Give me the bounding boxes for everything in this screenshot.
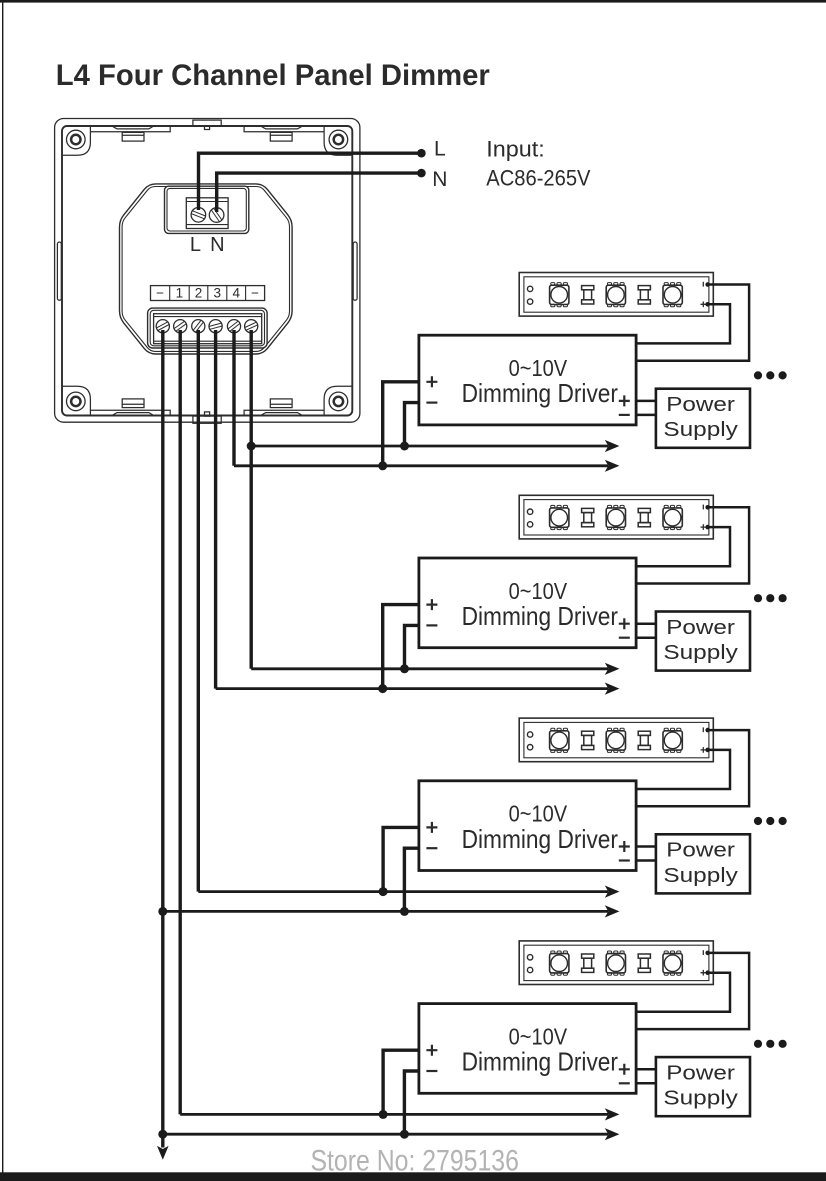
node LS1 bottom (705, 302, 710, 307)
svg-text:Input:: Input: (486, 137, 545, 162)
output terminal screw 6 (245, 320, 258, 333)
label - output U4 (619, 1082, 630, 1084)
bus line B channel 2 (216, 687, 608, 690)
junction U4+ on A (379, 1110, 388, 1119)
svg-text:Power: Power (666, 394, 735, 416)
resistor LS3.R2 (638, 731, 650, 749)
pad + LS1 (701, 302, 707, 308)
resistor LS1.R1 (582, 286, 594, 304)
junction bus A ch1 on common right wire (247, 442, 256, 451)
power supply PS4 (656, 1057, 750, 1116)
wire U4 + to PS4 (636, 1068, 656, 1071)
ellipsis channel 3 (754, 817, 787, 825)
output terminal screw 5 (227, 320, 240, 333)
LED chip LS3.3 (663, 728, 682, 752)
svg-text:0~10V: 0~10V (509, 355, 568, 381)
label - output U3 (619, 859, 630, 861)
wire U3 - input (404, 848, 419, 911)
wire U1 + to PS1 (636, 400, 656, 403)
wire LS1 bottom to driver U1 (636, 304, 730, 343)
wire LS1 top to driver U1 (636, 285, 749, 361)
ellipsis channel 2 (754, 594, 787, 602)
wire U4 + input (383, 1050, 419, 1114)
svg-text:L4 Four Channel Panel Dimmer: L4 Four Channel Panel Dimmer (56, 59, 491, 92)
dimming driver U1 (419, 335, 636, 425)
wire output channel 3 (214, 330, 217, 689)
svg-text:Dimming Driver: Dimming Driver (462, 1047, 619, 1077)
wire output channel 4 (232, 330, 235, 466)
bus line A channel 1 (251, 445, 608, 448)
label - input U2 (426, 624, 437, 626)
svg-text:Supply: Supply (663, 642, 738, 664)
device corner screws (67, 130, 348, 411)
node LS2 bottom (705, 525, 710, 530)
svg-text:N: N (210, 234, 224, 256)
label + input U4 (426, 1045, 437, 1056)
node LS3 top (705, 728, 710, 733)
wire output common - (left) (161, 330, 164, 1148)
node LS3 bottom (705, 748, 710, 753)
LED chip LS4.2 (606, 951, 625, 975)
node L (417, 149, 426, 158)
device octagon mounting ring (120, 184, 293, 354)
wire U1 - input (405, 403, 419, 446)
wire LS2 bottom to driver U2 (636, 527, 730, 566)
svg-text:2: 2 (195, 286, 203, 301)
junction U3- on B (400, 907, 409, 916)
LED chip LS3.2 (606, 728, 625, 752)
svg-text:Supply: Supply (663, 419, 738, 441)
svg-text:1: 1 (176, 286, 184, 301)
power supply PS3 (656, 834, 750, 893)
dimming driver U2 (419, 558, 636, 648)
junction U3+ on A (379, 887, 388, 896)
ellipsis channel 1 (754, 371, 787, 379)
svg-text:−: − (156, 286, 164, 301)
label + output U1 (619, 395, 630, 406)
wire L input (199, 153, 422, 210)
label - input U1 (426, 402, 437, 404)
junction bus B ch3 on common left wire (158, 907, 167, 916)
output terminal screw 3 (192, 320, 205, 333)
label - input U3 (426, 847, 437, 849)
page bottom border (0, 1172, 826, 1181)
wire output common - (right) (249, 330, 252, 669)
wire LS4 top to driver U4 (636, 953, 749, 1029)
svg-text:0~10V: 0~10V (509, 801, 568, 827)
bus line A channel 3 (198, 890, 608, 893)
LED chip LS1.3 (663, 283, 682, 307)
svg-text:0~10V: 0~10V (509, 578, 568, 604)
LED chip LS1.2 (606, 283, 625, 307)
LED strip LS2 (519, 495, 713, 539)
resistor LS3.R1 (582, 731, 594, 749)
wire LS3 bottom to driver U3 (636, 750, 730, 789)
dimming driver U4 (419, 1004, 636, 1094)
bus line B channel 1 (234, 464, 608, 467)
resistor LS2.R2 (638, 508, 650, 526)
output terminal screw 4 (209, 320, 222, 333)
resistor LS4.R1 (582, 954, 594, 972)
resistor LS4.R2 (638, 954, 650, 972)
terminal screw L (191, 208, 206, 223)
pad + LS4 (701, 970, 707, 976)
LED strip LS3 (519, 718, 713, 762)
wire U1 + input (383, 382, 419, 466)
wire N input (217, 173, 422, 212)
resistor LS1.R2 (638, 286, 650, 304)
ellipsis channel 4 (754, 1040, 787, 1048)
terminal screw N (209, 208, 224, 223)
output terminal screw 1 (156, 320, 169, 333)
power supply PS2 (656, 612, 750, 671)
resistor LS2.R1 (582, 508, 594, 526)
pad - LS2 (702, 505, 704, 510)
wire U2 + input (383, 605, 419, 689)
wire U2 - input (405, 625, 419, 668)
arrow bus A channel 1 (605, 440, 620, 452)
bus line B channel 3 (163, 910, 608, 913)
svg-text:Dimming Driver: Dimming Driver (462, 378, 619, 408)
junction U2- on A (400, 664, 409, 673)
svg-text:−: − (251, 286, 259, 301)
svg-text:Dimming Driver: Dimming Driver (462, 824, 619, 854)
pad - LS1 (702, 282, 704, 287)
LED chip LS2.2 (606, 505, 625, 529)
wire LS2 top to driver U2 (636, 507, 749, 583)
LED chip LS4.3 (663, 951, 682, 975)
svg-text:L: L (190, 234, 201, 256)
label + input U1 (426, 376, 437, 387)
svg-text:N: N (432, 168, 447, 191)
pad - LS4 (702, 950, 704, 955)
dimming driver U3 (419, 781, 636, 871)
label + output U2 (619, 618, 630, 629)
label - output U1 (619, 414, 630, 416)
wire LS3 top to driver U3 (636, 730, 749, 806)
node LS2 top (705, 505, 710, 510)
arrow bus B channel 1 (605, 460, 620, 472)
output terminal block (148, 308, 268, 348)
label - output U2 (619, 637, 630, 639)
svg-text:L: L (434, 137, 446, 160)
pad + LS3 (701, 747, 707, 753)
wire U3 + to PS3 (636, 845, 656, 848)
wire U4 - input (404, 1071, 419, 1134)
node LS1 top (705, 282, 710, 287)
LED chip LS2.3 (663, 505, 682, 529)
wire U3 + input (383, 827, 419, 891)
LED strip LS1 (519, 273, 713, 317)
pad + LS2 (701, 524, 707, 530)
wire U3 - to PS3 (636, 859, 656, 862)
bus line B channel 4 (163, 1133, 608, 1136)
pad - LS3 (702, 727, 704, 732)
node LS4 bottom (705, 970, 710, 975)
svg-text:Power: Power (666, 617, 735, 639)
svg-text:4: 4 (232, 286, 240, 301)
wire U1 - to PS1 (636, 414, 656, 417)
wire output channel 1 (178, 330, 181, 1114)
label + output U3 (619, 841, 630, 852)
svg-text:0~10V: 0~10V (509, 1023, 568, 1049)
arrow bus A channel 4 (605, 1108, 620, 1120)
wire LS4 bottom to driver U4 (636, 973, 730, 1012)
svg-text:Dimming Driver: Dimming Driver (462, 601, 619, 631)
arrow bus A channel 2 (605, 663, 620, 675)
LED chip LS3.1 (550, 728, 569, 752)
junction U2+ on B (378, 684, 387, 693)
wire U4 - to PS4 (636, 1082, 656, 1085)
node N (417, 169, 426, 178)
power supply PS1 (656, 389, 750, 448)
arrow bus B channel 3 (605, 905, 620, 917)
junction bus B ch4 on common left wire (158, 1130, 167, 1139)
label - input U4 (426, 1070, 437, 1072)
panel dimmer device frame (55, 119, 360, 424)
label + input U2 (426, 599, 437, 610)
arrow bus A channel 3 (605, 886, 620, 898)
page top border (0, 0, 826, 3)
junction U1+ on B (378, 461, 387, 470)
output terminal screw 2 (174, 320, 187, 333)
LED chip LS2.1 (550, 505, 569, 529)
LED strip LS4 (519, 941, 713, 985)
junction U1- on A (400, 442, 409, 451)
label + input U3 (426, 822, 437, 833)
label + output U4 (619, 1064, 630, 1075)
arrow common - down (157, 1146, 169, 1160)
arrow bus B channel 2 (605, 683, 620, 695)
svg-text:3: 3 (214, 286, 222, 301)
wire U2 + to PS2 (636, 622, 656, 625)
junction U4- on B (400, 1130, 409, 1139)
wire U2 - to PS2 (636, 636, 656, 639)
svg-text:Supply: Supply (663, 1088, 738, 1110)
wire output channel 2 (197, 330, 200, 892)
bus line A channel 4 (180, 1113, 608, 1116)
LED chip LS4.1 (550, 951, 569, 975)
bus line A channel 2 (251, 667, 608, 670)
label L N (190, 234, 225, 256)
node LS4 top (705, 951, 710, 956)
arrow bus B channel 4 (605, 1128, 620, 1140)
page left border (2, 0, 3, 1181)
L N input terminal block (165, 186, 249, 233)
svg-text:Power: Power (666, 1062, 735, 1084)
svg-text:Supply: Supply (663, 865, 738, 887)
svg-text:AC86-265V: AC86-265V (486, 165, 590, 190)
svg-text:Power: Power (666, 840, 735, 862)
output terminal label strip - 1 2 3 4 - (151, 286, 265, 301)
LED chip LS1.1 (550, 283, 569, 307)
